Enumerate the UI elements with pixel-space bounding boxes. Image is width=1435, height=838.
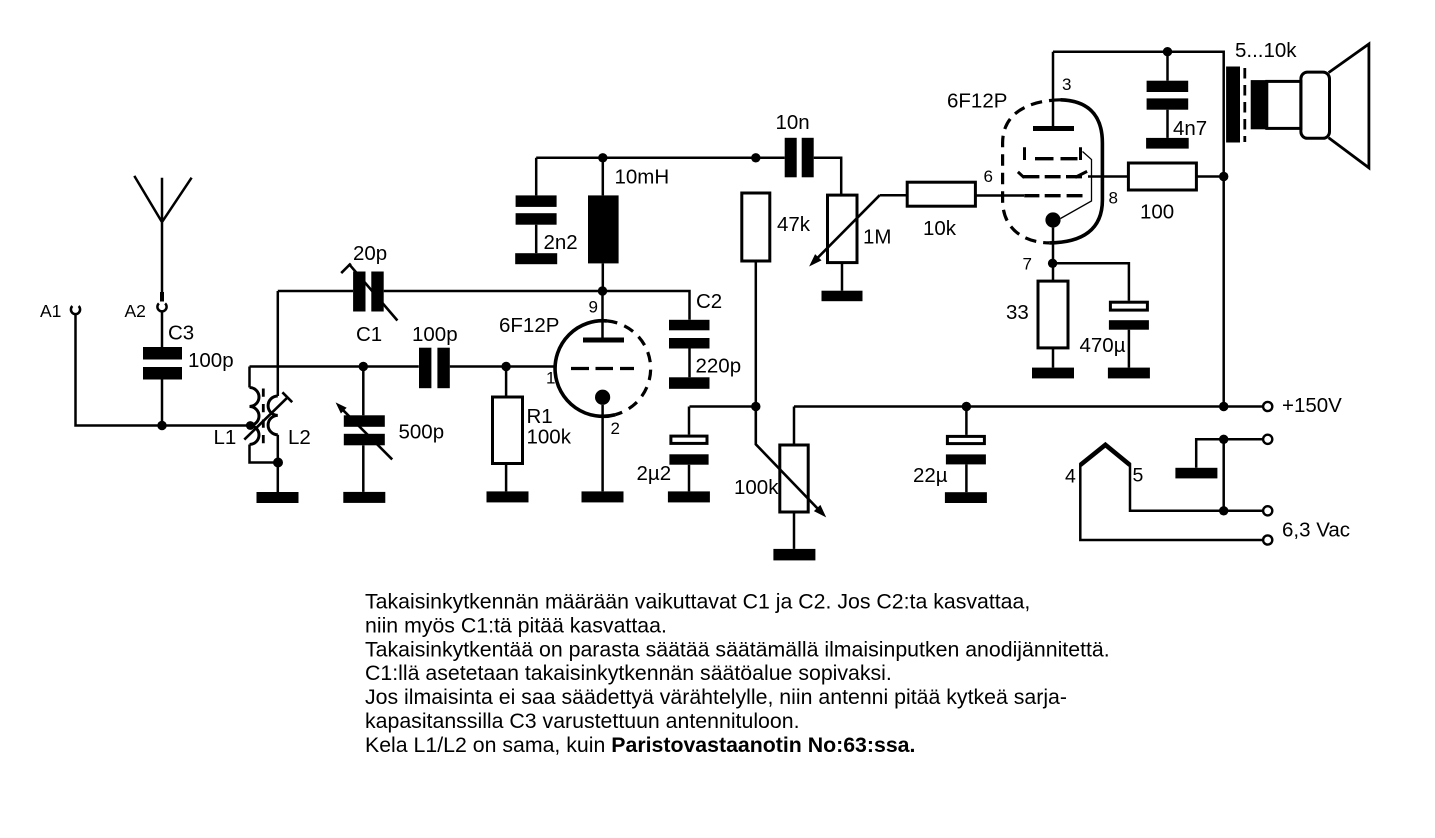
capacitor 500p variable	[336, 367, 393, 492]
speaker transformer primary	[1226, 67, 1240, 143]
svg-text:6F12P: 6F12P	[947, 90, 1007, 113]
capacitor 10n	[785, 138, 842, 195]
node 100 right	[1219, 172, 1228, 181]
wire pin7 to 470u	[1053, 263, 1129, 300]
wire tickler to 20p	[278, 290, 353, 293]
svg-text:7: 7	[1023, 255, 1032, 274]
capacitor 2u2 electrolytic	[669, 407, 708, 492]
node speaker rail	[1219, 402, 1228, 411]
ground under 1M	[822, 291, 863, 302]
resistor 100	[1128, 163, 1223, 190]
ground under 22u	[945, 492, 987, 503]
svg-text:2n2: 2n2	[544, 231, 578, 254]
wire 20p to plate node	[384, 290, 603, 293]
svg-text:C3: C3	[168, 322, 194, 345]
svg-text:9: 9	[589, 298, 598, 317]
svg-text:Takaisinkytkentää on parasta s: Takaisinkytkentää on parasta säätää säät…	[365, 637, 1110, 661]
svg-text:6,3 Vac: 6,3 Vac	[1282, 519, 1350, 542]
node 47k top	[751, 153, 760, 162]
heater filament pins 4-5	[1080, 445, 1130, 465]
node 10mH top	[598, 153, 607, 162]
svg-text:8: 8	[1109, 189, 1118, 208]
svg-text:10n: 10n	[776, 111, 810, 134]
svg-text:100k: 100k	[527, 426, 572, 449]
svg-text:5: 5	[1133, 465, 1144, 487]
node L1/L2 common	[273, 458, 283, 468]
ground under 500p	[343, 492, 385, 503]
svg-text:2: 2	[611, 419, 620, 438]
wire pin5 to 6.3Vac	[1130, 464, 1224, 511]
ground under R1	[487, 491, 529, 502]
svg-text:22µ: 22µ	[913, 464, 948, 487]
ground under 100k	[773, 549, 815, 561]
tube V1 cathode	[595, 390, 610, 492]
svg-text:6F12P: 6F12P	[499, 314, 559, 337]
potentiometer 1M	[809, 195, 880, 291]
node 500p junction	[359, 362, 368, 371]
node L1 tap	[246, 421, 255, 430]
wire pin4 to 6.3Vac	[1080, 464, 1263, 540]
ground under 470u	[1108, 368, 1150, 379]
wire 1M wiper to 10k	[880, 194, 908, 197]
svg-text:A2: A2	[125, 301, 146, 321]
node antenna/C3 junction	[157, 421, 166, 430]
wire plate to speaker	[1053, 52, 1224, 407]
note text block	[365, 590, 1110, 757]
terminal A1	[71, 306, 80, 314]
node 4n7 top	[1163, 47, 1172, 56]
node heater ground	[1219, 435, 1228, 444]
tube V2 grid2 screen	[1018, 171, 1087, 177]
svg-text:100p: 100p	[412, 323, 458, 346]
inductor L2	[268, 291, 278, 492]
svg-text:2µ2: 2µ2	[637, 462, 672, 485]
wire heater to terminal	[1224, 510, 1263, 513]
svg-text:220p: 220p	[696, 355, 742, 378]
svg-text:L1: L1	[214, 426, 237, 449]
svg-text:4n7: 4n7	[1173, 117, 1207, 140]
speaker cone	[1329, 44, 1369, 168]
capacitor 2n2	[516, 158, 557, 253]
tube V2 envelope dashed	[1003, 100, 1061, 243]
tube V2 plate pin3	[1033, 52, 1074, 129]
terminal 6.3Vac b	[1263, 535, 1272, 544]
variable arrow on L1/L2	[244, 392, 292, 439]
node V2 cathode pin7	[1048, 259, 1057, 268]
ground under 2n2	[515, 253, 557, 264]
node 22u top	[962, 402, 971, 411]
ground under C2	[669, 377, 710, 389]
svg-text:Jos ilmaisinta ei saa säädetty: Jos ilmaisinta ei saa säädettyä värähtel…	[365, 685, 1067, 709]
svg-text:3: 3	[1062, 75, 1071, 94]
transformer core dashed	[262, 389, 265, 444]
ground heater	[1175, 468, 1217, 479]
tube V1 plate	[583, 291, 624, 340]
capacitor C2 220p	[603, 291, 710, 377]
svg-text:+150V: +150V	[1282, 394, 1342, 417]
tube V2 grid1 control	[1024, 194, 1082, 197]
wire screen to 100	[1088, 175, 1128, 178]
svg-text:C1:llä asetetaan takaisinkytke: C1:llä asetetaan takaisinkytkennän säätö…	[365, 661, 892, 685]
svg-text:Takaisinkytkennän määrään vaik: Takaisinkytkennän määrään vaikuttavat C1…	[365, 590, 1030, 614]
tube V2 grid3	[1025, 147, 1081, 160]
svg-text:kapasitanssilla C3 varustettuu: kapasitanssilla C3 varustettuun antennit…	[365, 709, 800, 733]
resistor R1	[493, 367, 523, 492]
tube V1 6F12P triode envelope solid	[555, 321, 615, 417]
speaker driver	[1301, 72, 1330, 138]
speaker voice coil	[1251, 80, 1267, 129]
svg-text:20p: 20p	[353, 242, 387, 265]
tube V2 6F12P pentode envelope solid	[1049, 100, 1102, 243]
svg-text:C1: C1	[356, 323, 382, 346]
wire heater ground branch	[1196, 439, 1263, 511]
terminal A2	[157, 303, 166, 311]
svg-text:100p: 100p	[188, 349, 234, 372]
tube V2 suppressor to cathode link	[1061, 152, 1092, 219]
potentiometer 100k volume	[756, 407, 826, 549]
svg-text:Kela L1/L2 on sama, kuin Paris: Kela L1/L2 on sama, kuin Paristovastaano…	[365, 733, 915, 757]
capacitor 4n7	[1147, 52, 1189, 138]
capacitor C1 20p trimmer	[341, 264, 397, 321]
svg-text:1: 1	[546, 369, 555, 388]
svg-text:4: 4	[1065, 466, 1076, 488]
svg-text:33: 33	[1006, 301, 1029, 324]
wire 10k to grid1	[975, 194, 1024, 197]
wire tank	[250, 365, 419, 368]
svg-text:47k: 47k	[777, 213, 811, 236]
capacitor 470u electrolytic	[1109, 302, 1149, 367]
wire 47k node	[690, 405, 756, 408]
svg-text:100k: 100k	[734, 476, 779, 499]
tube V1 grid dashed	[571, 367, 634, 370]
svg-text:A1: A1	[40, 301, 61, 321]
inductor L1	[250, 367, 279, 463]
node heater mid	[1219, 506, 1228, 515]
node R1 junction	[501, 362, 510, 371]
wire A1 down	[76, 314, 249, 426]
tube V2 cathode	[1045, 212, 1060, 281]
node V1 plate junction	[598, 286, 607, 295]
antenna	[134, 176, 191, 302]
terminal +150V	[1263, 402, 1272, 411]
capacitor 100p grid	[419, 348, 450, 389]
svg-text:6: 6	[984, 167, 993, 186]
svg-text:niin myös C1:tä pitää kasvatta: niin myös C1:tä pitää kasvattaa.	[365, 613, 667, 637]
capacitor C3	[143, 312, 182, 426]
ground under L2	[257, 492, 299, 503]
terminal heater ground	[1263, 435, 1272, 444]
speaker transformer core dashed	[1243, 68, 1246, 142]
ground under 4n7	[1146, 138, 1189, 149]
svg-text:5...10k: 5...10k	[1235, 39, 1297, 62]
wire 100p to grid	[450, 365, 556, 368]
resistor 33	[1038, 281, 1068, 368]
svg-text:10k: 10k	[923, 217, 957, 240]
resistor 10k	[907, 182, 975, 206]
svg-text:10mH: 10mH	[615, 166, 670, 189]
wire top rail	[536, 157, 785, 160]
svg-text:500p: 500p	[399, 421, 445, 444]
terminal 6.3Vac a	[1263, 506, 1272, 515]
speaker coil form	[1267, 81, 1301, 128]
svg-text:C2: C2	[696, 290, 722, 313]
resistor 47k	[742, 193, 770, 407]
svg-text:L2: L2	[288, 426, 311, 449]
svg-text:470µ: 470µ	[1080, 334, 1126, 357]
tube V1 envelope dashed	[607, 321, 651, 415]
wire +150V rail	[794, 405, 1263, 408]
capacitor 22u electrolytic	[946, 407, 986, 493]
inductor 10mH choke	[588, 158, 619, 291]
svg-text:100: 100	[1140, 201, 1174, 224]
node 47k bottom	[751, 402, 760, 411]
ground under V1 cathode	[582, 491, 624, 502]
svg-text:1M: 1M	[863, 226, 891, 249]
ground under 33	[1032, 368, 1074, 379]
ground under 2u2	[668, 491, 710, 502]
